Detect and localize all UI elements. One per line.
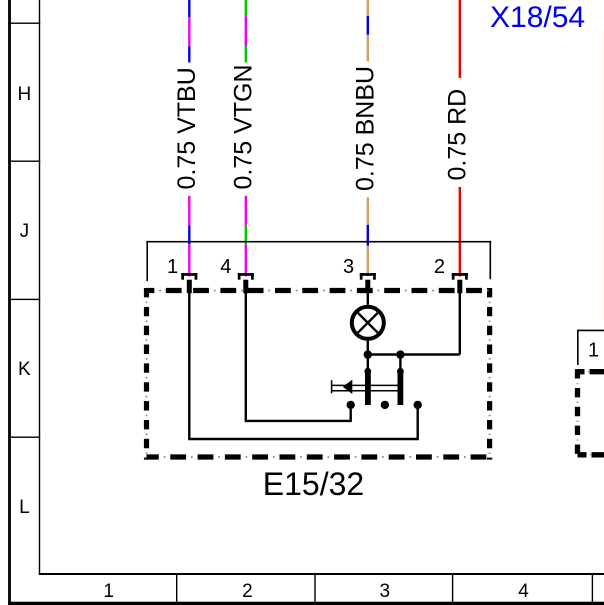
svg-text:E15/32: E15/32 (263, 466, 364, 502)
svg-text:0.75 VTBU: 0.75 VTBU (173, 67, 201, 189)
svg-text:K: K (18, 359, 31, 380)
svg-text:2: 2 (242, 581, 253, 602)
svg-text:1: 1 (588, 340, 599, 362)
svg-text:J: J (20, 221, 30, 242)
svg-text:0.75 VTGN: 0.75 VTGN (230, 64, 258, 189)
svg-text:0.75 BNBU: 0.75 BNBU (352, 66, 380, 191)
svg-text:0.75 RD: 0.75 RD (444, 89, 472, 181)
svg-text:L: L (19, 497, 30, 518)
svg-text:1: 1 (167, 256, 178, 278)
svg-text:H: H (18, 84, 32, 105)
svg-text:3: 3 (380, 581, 391, 602)
svg-text:4: 4 (220, 256, 231, 278)
svg-text:X18/54: X18/54 (490, 1, 585, 34)
svg-text:2: 2 (434, 256, 445, 278)
svg-text:3: 3 (343, 256, 354, 278)
svg-text:4: 4 (518, 581, 529, 602)
svg-text:1: 1 (103, 581, 114, 602)
